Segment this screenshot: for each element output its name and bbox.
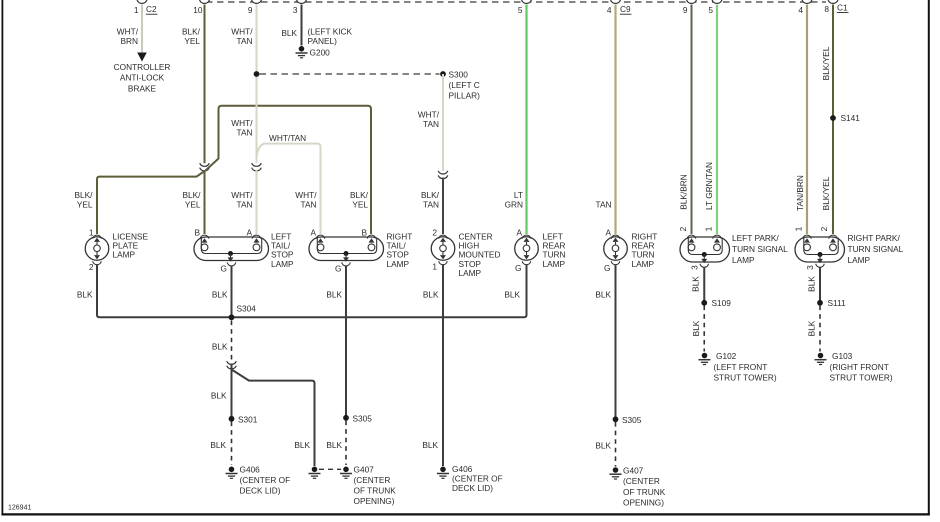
label BLK (above G407 left) [294, 440, 310, 450]
label TAN [596, 200, 612, 210]
svg-text:BLK: BLK [422, 440, 438, 450]
svg-text:C9: C9 [620, 4, 631, 14]
label BLK/YEL (vertical, lower) [821, 176, 831, 210]
label BLK (below S304) [212, 342, 228, 352]
svg-text:BLK: BLK [326, 290, 342, 300]
svg-text:WHT/: WHT/ [231, 190, 253, 200]
lamp: RIGHT REAR TURN LAMP [604, 228, 658, 274]
svg-text:BLK/: BLK/ [350, 190, 369, 200]
svg-text:TURN SIGNAL: TURN SIGNAL [732, 244, 788, 254]
svg-text:(LEFT FRONT: (LEFT FRONT [714, 362, 768, 372]
lamp: LEFT TAIL/STOP LAMP [194, 228, 294, 274]
svg-text:BRAKE: BRAKE [128, 83, 157, 93]
svg-text:10: 10 [193, 5, 203, 15]
svg-text:(LEFT KICK: (LEFT KICK [308, 27, 353, 37]
svg-text:LAMP: LAMP [387, 259, 410, 269]
label WHT/BRN [117, 27, 139, 47]
label WHT/TAN (right tail) [295, 190, 317, 210]
label BLK (left tail drop) [212, 290, 228, 300]
svg-text:2: 2 [678, 226, 688, 231]
dashed wire BLK S111 to G103 [819, 306, 821, 352]
svg-text:A: A [605, 228, 611, 238]
splice S141 [830, 113, 860, 123]
wire BLK/YEL from pin 10 down to in-line connector [204, 5, 206, 164]
label BLK [281, 28, 297, 38]
in-line connector on center stop lamp wire [438, 171, 448, 179]
svg-text:BLK: BLK [691, 320, 701, 336]
label BLK (above S301) [211, 391, 227, 401]
label BLK (above G407 mid) [326, 440, 342, 450]
svg-text:3: 3 [293, 5, 298, 15]
dashed wire BLK below S304 [231, 321, 233, 361]
svg-text:B: B [361, 228, 367, 238]
ground G407 (far right) [610, 466, 666, 508]
connector C2 label [146, 4, 158, 14]
lamp: CENTER HIGH MOUNTED STOP LAMP [431, 228, 500, 279]
svg-text:OF TRUNK: OF TRUNK [623, 487, 666, 497]
svg-text:BLK/: BLK/ [421, 190, 440, 200]
label BLK/YEL (top) [182, 27, 201, 47]
svg-text:BLK: BLK [807, 276, 817, 292]
svg-text:G406: G406 [240, 465, 261, 475]
svg-text:G103: G103 [832, 351, 853, 361]
svg-text:A: A [516, 228, 522, 238]
label BLK/YEL (vertical, top) [821, 46, 831, 80]
wire BLK/YEL from C1 pin 8 [832, 5, 834, 235]
svg-text:(CENTER OF: (CENTER OF [452, 474, 503, 484]
connector C9 pin 4 terminal [607, 0, 621, 15]
svg-text:LT GRN/TAN: LT GRN/TAN [704, 162, 714, 210]
svg-text:LAMP: LAMP [113, 250, 136, 260]
svg-text:2: 2 [89, 262, 94, 272]
svg-text:DECK LID): DECK LID) [452, 483, 493, 493]
svg-text:G: G [335, 264, 341, 274]
label BLK/BRN (vertical) [679, 174, 689, 210]
svg-text:S141: S141 [841, 113, 861, 123]
svg-text:ANTI-LOCK: ANTI-LOCK [120, 73, 165, 83]
svg-text:RIGHT PARK/: RIGHT PARK/ [848, 233, 901, 243]
lamp: LICENSE PLATE LAMP [85, 228, 148, 273]
wire BLK right tail lamp G to S305 [345, 266, 347, 416]
label WHT/TAN (branch) [269, 133, 306, 143]
svg-text:OPENING): OPENING) [354, 496, 395, 506]
connector pin 5 terminal (C1) [708, 0, 722, 15]
svg-text:S304: S304 [237, 304, 257, 314]
label BLK (left rear turn drop) [504, 290, 520, 300]
svg-text:LAMP: LAMP [459, 268, 482, 278]
label BLK (above G407 right) [595, 441, 611, 451]
svg-text:BLK/YEL: BLK/YEL [821, 176, 831, 210]
svg-text:5: 5 [518, 5, 523, 15]
svg-text:CONTROLLER: CONTROLLER [114, 62, 171, 72]
svg-text:S111: S111 [828, 298, 847, 308]
svg-text:(CENTER OF: (CENTER OF [240, 475, 291, 485]
wire TAN to right rear turn lamp pin A [614, 5, 616, 235]
ground G406 (left) [226, 465, 291, 496]
label WHT/TAN (left tail) [231, 190, 253, 210]
svg-text:S301: S301 [238, 415, 258, 425]
svg-text:G102: G102 [716, 351, 737, 361]
ground G103 [815, 351, 893, 383]
in-line connector below S304 [227, 361, 237, 369]
svg-text:A: A [246, 228, 252, 238]
svg-text:BLK/: BLK/ [183, 190, 202, 200]
lamp: LEFT PARK/TURN SIGNAL LAMP [678, 226, 788, 270]
svg-text:LT: LT [514, 190, 523, 200]
svg-text:LAMP: LAMP [543, 259, 566, 269]
svg-text:1: 1 [704, 226, 714, 231]
svg-text:1: 1 [89, 228, 94, 238]
svg-text:5: 5 [708, 5, 713, 15]
svg-text:G407: G407 [354, 465, 375, 475]
node CONTROLLER ANTI-LOCK BRAKE [114, 62, 171, 93]
svg-text:PILLAR): PILLAR) [449, 91, 481, 101]
wire WHT/TAN to left tail lamp pin A [256, 170, 258, 234]
label WHT/TAN (top) [231, 27, 253, 47]
svg-text:BLK: BLK [691, 276, 701, 292]
label BLK (above G406 right) [422, 440, 438, 450]
svg-text:BLK/YEL: BLK/YEL [821, 46, 831, 80]
wire BLK/TAN to center stop lamp pin 2 [442, 178, 444, 234]
svg-text:S305: S305 [353, 414, 373, 424]
label BLK/TAN [421, 190, 440, 210]
svg-text:BRN: BRN [120, 36, 138, 46]
connector C2 pin 1 terminal [134, 0, 147, 15]
lamp: LEFT REAR TURN LAMP [515, 228, 566, 274]
label LT GRN/TAN (vertical) [704, 162, 714, 210]
connector pin 3 terminal [293, 0, 307, 15]
label (LEFT KICK PANEL) [308, 27, 353, 47]
svg-text:8: 8 [824, 4, 829, 14]
wire BLK left park lamp pin 3 to S109 [703, 268, 705, 302]
in-line connector on WHT/TAN wire [252, 163, 262, 171]
svg-text:S305: S305 [622, 415, 642, 425]
wire BLK left tail lamp G to S304 [231, 266, 233, 318]
svg-text:G406: G406 [452, 464, 473, 474]
wire WHT/BRN from C2 pin 1 [141, 5, 143, 54]
svg-text:B: B [194, 228, 200, 238]
svg-text:G: G [515, 263, 521, 273]
svg-text:BLK: BLK [423, 290, 439, 300]
svg-text:YEL: YEL [185, 200, 201, 210]
label BLK (vertical, above G102) [691, 320, 701, 336]
dashed wire BLK S305 to G407 [345, 421, 347, 466]
label BLK/YEL (left tail) [183, 190, 202, 210]
svg-text:4: 4 [607, 5, 612, 15]
svg-text:LAMP: LAMP [271, 259, 294, 269]
svg-text:G: G [604, 263, 610, 273]
svg-text:C2: C2 [146, 4, 157, 14]
wire BLK/YEL to left tail lamp pin B [204, 170, 206, 234]
wire BLK/BRN to left park lamp pin 2 [691, 5, 693, 235]
dashed link between G407 grounds [319, 468, 341, 470]
svg-text:3: 3 [690, 265, 700, 270]
svg-text:S300: S300 [449, 70, 469, 80]
label BLK/YEL (right tail) [350, 190, 369, 210]
svg-text:126941: 126941 [8, 505, 31, 512]
svg-text:TAN: TAN [423, 200, 439, 210]
label WHT/TAN (S300 drop) [418, 110, 440, 130]
svg-text:BLK: BLK [807, 320, 817, 336]
svg-text:BLK/: BLK/ [75, 190, 94, 200]
ground G406 (right) [437, 464, 503, 493]
svg-text:TAN: TAN [596, 200, 612, 210]
wire BLK right rear turn lamp G to S305 [615, 265, 617, 418]
label BLK/YEL (license) [75, 190, 94, 210]
svg-text:WHT/: WHT/ [231, 118, 253, 128]
connector pin 9 terminal [248, 0, 262, 15]
connector C1 pin 8 terminal [824, 0, 838, 14]
label TAN/BRN (vertical) [795, 175, 805, 211]
svg-text:BLK: BLK [326, 440, 342, 450]
svg-text:C1: C1 [837, 3, 848, 13]
wire BLK from pin 3 [301, 5, 303, 46]
wire LT GRN/TAN to left park lamp pin 1 [716, 5, 718, 235]
label BLK (center stop drop) [423, 290, 439, 300]
svg-text:OPENING): OPENING) [623, 498, 664, 508]
svg-text:LAMP: LAMP [848, 255, 871, 265]
connector pin 4 terminal (C1) [798, 0, 812, 15]
connector pin 5 terminal [518, 0, 532, 15]
lamp: RIGHT PARK/TURN SIGNAL LAMP [794, 226, 904, 270]
svg-text:2: 2 [819, 226, 829, 231]
svg-text:S109: S109 [712, 298, 732, 308]
connector C9 label [620, 4, 632, 14]
connector pin 9 terminal (C1) [683, 0, 697, 15]
svg-text:BLK: BLK [281, 28, 297, 38]
svg-text:STRUT TOWER): STRUT TOWER) [830, 373, 893, 383]
svg-text:(CENTER: (CENTER [354, 475, 391, 485]
svg-text:TURN SIGNAL: TURN SIGNAL [848, 244, 904, 254]
svg-text:BLK: BLK [211, 391, 227, 401]
ground G407 (right of pair) [340, 465, 396, 507]
wire BLK branch to G407 (left) [232, 370, 315, 467]
svg-text:BLK/: BLK/ [182, 27, 201, 37]
wire WHT/TAN from S300 to in-line connector [442, 74, 444, 171]
label BLK (license drop) [77, 290, 93, 300]
label BLK (vertical, right park drop) [807, 276, 817, 292]
svg-text:YEL: YEL [77, 200, 93, 210]
svg-text:BLK: BLK [212, 342, 228, 352]
svg-text:TAN: TAN [237, 200, 253, 210]
svg-text:1: 1 [432, 262, 437, 272]
dashed wire BLK S109 to G102 [703, 306, 705, 352]
label BLK (vertical, left park drop) [691, 276, 701, 292]
svg-text:OF TRUNK: OF TRUNK [354, 486, 397, 496]
wire WHT/TAN branch to right tail lamp pin A [257, 144, 321, 234]
ground G200 [296, 46, 331, 58]
label WHT/TAN (mid) [231, 118, 253, 138]
svg-text:(RIGHT FRONT: (RIGHT FRONT [830, 362, 889, 372]
svg-text:WHT/: WHT/ [231, 27, 253, 37]
svg-text:WHT/: WHT/ [418, 110, 440, 120]
svg-text:LEFT PARK/: LEFT PARK/ [732, 233, 779, 243]
svg-text:9: 9 [683, 5, 688, 15]
splice S111 [817, 298, 846, 308]
splice S305 (right) [613, 415, 642, 425]
svg-text:G: G [221, 264, 227, 274]
ground G102 [699, 351, 777, 383]
svg-text:STRUT TOWER): STRUT TOWER) [714, 373, 777, 383]
wire BLK/YEL branch to right tail lamp pin B [206, 106, 372, 234]
connector pin 10 terminal [193, 0, 209, 15]
dashed splice link to S300 [260, 73, 440, 75]
svg-text:9: 9 [248, 5, 253, 15]
junction on WHT/TAN wire [254, 71, 260, 77]
svg-text:BLK: BLK [210, 440, 226, 450]
svg-text:(LEFT C: (LEFT C [449, 80, 480, 90]
label BLK (right tail drop) [326, 290, 342, 300]
label BLK (right rear turn drop) [595, 290, 611, 300]
svg-text:WHT/: WHT/ [295, 190, 317, 200]
wire BLK ground bus (license lamp to left rear turn lamp) [97, 265, 527, 318]
label LT GRN [505, 190, 523, 210]
wire LT GRN to left rear turn lamp pin A [525, 5, 527, 235]
svg-text:4: 4 [798, 5, 803, 15]
svg-text:BLK: BLK [595, 290, 611, 300]
svg-text:1: 1 [134, 5, 139, 15]
splice S109 [701, 298, 731, 308]
svg-text:BLK/BRN: BLK/BRN [679, 174, 689, 210]
splice S304 [229, 304, 257, 321]
splice S301 [229, 415, 258, 425]
svg-text:TAN/BRN: TAN/BRN [795, 175, 805, 211]
svg-text:2: 2 [432, 228, 437, 238]
svg-text:YEL: YEL [352, 200, 368, 210]
svg-text:1: 1 [794, 226, 804, 231]
label BLK (above G406 left) [210, 440, 226, 450]
svg-text:LAMP: LAMP [732, 255, 755, 265]
svg-text:G407: G407 [623, 466, 644, 476]
in-line connector on BLK/YEL wire [200, 163, 210, 171]
svg-text:LAMP: LAMP [632, 259, 655, 269]
connector C1 label [837, 3, 849, 13]
svg-text:YEL: YEL [184, 36, 200, 46]
svg-text:G200: G200 [310, 48, 331, 58]
svg-text:BLK: BLK [504, 290, 520, 300]
svg-text:WHT/TAN: WHT/TAN [269, 133, 306, 143]
svg-text:BLK: BLK [77, 290, 93, 300]
wire BLK/YEL branch to license plate lamp [97, 172, 204, 235]
dashed wire BLK S301 to G406 [231, 422, 233, 466]
svg-text:BLK: BLK [212, 290, 228, 300]
svg-text:BLK: BLK [294, 440, 310, 450]
wire TAN/BRN to right park lamp pin 1 [806, 5, 808, 235]
wire WHT/TAN from pin 9 [256, 5, 258, 164]
svg-text:3: 3 [805, 265, 815, 270]
lamp: RIGHT TAIL/STOP LAMP [309, 228, 412, 274]
wire BLK right park lamp pin 3 to S111 [819, 268, 821, 302]
svg-text:TAN: TAN [237, 36, 253, 46]
svg-text:TAN: TAN [301, 200, 317, 210]
svg-text:PANEL): PANEL) [308, 36, 338, 46]
ground G407 (left) [309, 467, 321, 479]
wire BLK center stop lamp to G406 (right) [442, 265, 444, 467]
splice S305 (left) [343, 414, 372, 424]
svg-text:(CENTER: (CENTER [623, 476, 660, 486]
connector dashed line (C9 / C1 bulkhead) [206, 1, 826, 3]
svg-text:GRN: GRN [505, 200, 523, 210]
svg-text:A: A [310, 228, 316, 238]
label BLK (vertical, above G103) [807, 320, 817, 336]
splice S300 [440, 70, 480, 101]
svg-text:TAN: TAN [423, 119, 439, 129]
svg-text:WHT/: WHT/ [117, 27, 139, 37]
svg-text:TAN: TAN [237, 128, 253, 138]
svg-text:BLK: BLK [595, 441, 611, 451]
dashed wire BLK S305 to G407 (right) [615, 422, 617, 467]
arrow to controller anti-lock brake [137, 53, 147, 62]
wire BLK connector to S301 [231, 364, 233, 417]
svg-text:DECK LID): DECK LID) [240, 486, 281, 496]
